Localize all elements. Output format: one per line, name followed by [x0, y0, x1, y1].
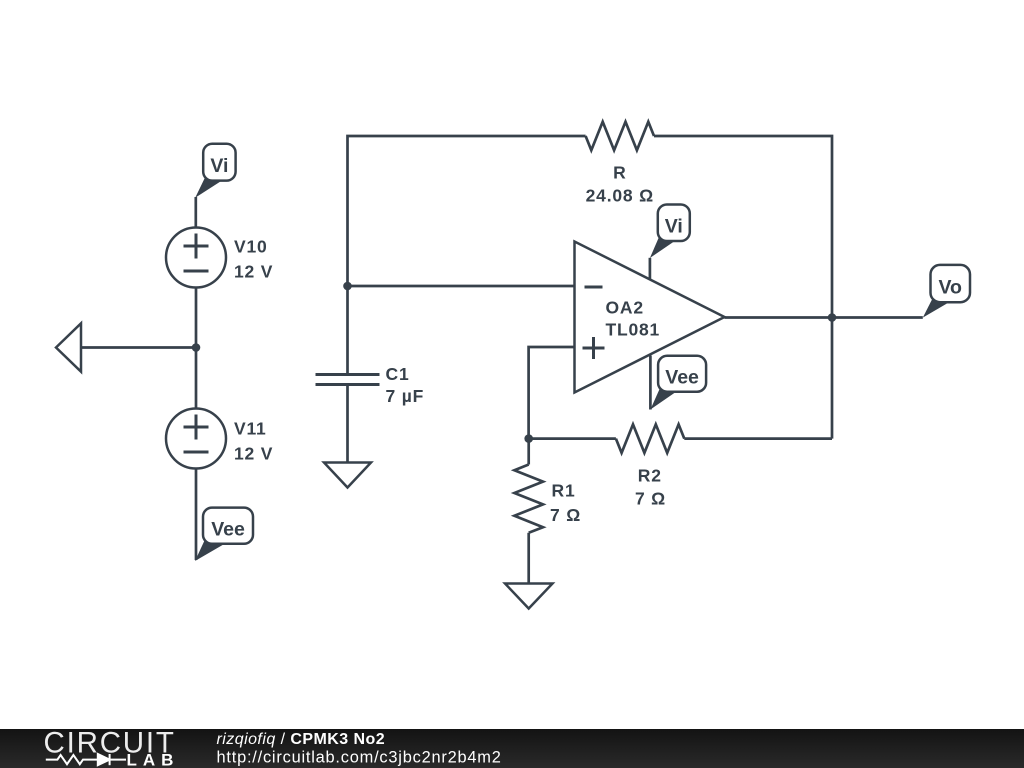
- svg-text:Vo: Vo: [939, 276, 963, 298]
- svg-text:TL081: TL081: [606, 320, 661, 340]
- wire Vee stub from op-amp bottom: [649, 356, 652, 410]
- wire R1 top lead: [527, 439, 530, 465]
- label R2 value: [635, 466, 666, 509]
- svg-text:Vi: Vi: [665, 216, 683, 238]
- node dot (inverting input / C1): [343, 282, 352, 291]
- net flag Vo (output): [923, 265, 970, 318]
- wire node to C1: [346, 286, 349, 374]
- net flag Vee (op-amp V-): [650, 356, 706, 410]
- resistor R: [586, 122, 654, 151]
- ground under C1: [324, 463, 371, 488]
- svg-text:R1: R1: [552, 481, 576, 501]
- resistor R1: [514, 465, 543, 533]
- wire op-amp output to Vo: [725, 316, 923, 319]
- svg-text:7 Ω: 7 Ω: [550, 505, 581, 525]
- wire V10 to V11: [195, 288, 198, 410]
- voltage source V10: [166, 228, 226, 288]
- label R1 value: [550, 481, 581, 526]
- label OA2: [606, 298, 661, 340]
- resistor R2: [616, 424, 684, 453]
- svg-text:Vee: Vee: [665, 367, 699, 389]
- wire node to left ground: [81, 346, 196, 349]
- wire top left segment: [348, 136, 586, 286]
- net flag Vee (left): [195, 508, 253, 561]
- op-amp OA2: [575, 242, 725, 393]
- wire inverting input: [348, 285, 575, 288]
- svg-text:http://circuitlab.com/c3jbc2nr: http://circuitlab.com/c3jbc2nr2b4m2: [217, 748, 502, 766]
- label V11 value: [234, 419, 273, 464]
- wire R1 bottom lead: [527, 533, 530, 584]
- wire R2 left lead: [529, 437, 616, 440]
- label V10 value: [234, 237, 273, 282]
- node dot (V sources / ground): [192, 343, 201, 352]
- wire non-inverting input: [529, 347, 575, 439]
- ground left: [56, 323, 81, 371]
- ground under R1: [505, 584, 553, 609]
- node dot (R1 / R2): [524, 434, 533, 443]
- svg-text:7 µF: 7 µF: [386, 386, 425, 406]
- svg-text:V10: V10: [234, 237, 268, 257]
- net flag Vi (left): [195, 144, 235, 198]
- CircuitLab logo schematic squiggle: [46, 754, 126, 765]
- svg-text:C1: C1: [386, 364, 410, 384]
- wire Vi stub to op-amp top: [649, 258, 652, 280]
- svg-text:V11: V11: [234, 419, 267, 439]
- net flag Vi (op-amp V+): [650, 205, 690, 259]
- label C1 value: [386, 364, 425, 406]
- node dot (output): [828, 313, 837, 322]
- svg-text:Vee: Vee: [211, 519, 245, 541]
- wire R2 right lead: [684, 437, 832, 440]
- svg-text:Vi: Vi: [210, 155, 228, 177]
- wire C1 to ground: [346, 385, 349, 463]
- svg-text:24.08 Ω: 24.08 Ω: [586, 186, 654, 206]
- svg-text:OA2: OA2: [606, 298, 644, 318]
- capacitor C1: [316, 375, 380, 385]
- wire V11 to Vee flag: [195, 469, 198, 561]
- svg-text:12 V: 12 V: [234, 262, 273, 282]
- label R value: [586, 163, 654, 206]
- wire top right segment: [654, 136, 832, 439]
- svg-text:12 V: 12 V: [234, 444, 273, 464]
- svg-text:LAB: LAB: [127, 751, 180, 768]
- wire Vi stub to V10: [194, 197, 197, 229]
- svg-text:rizqiofiq / CPMK3 No2: rizqiofiq / CPMK3 No2: [217, 731, 386, 748]
- svg-text:R2: R2: [638, 466, 662, 486]
- svg-text:7 Ω: 7 Ω: [635, 489, 666, 509]
- voltage source V11: [166, 409, 226, 469]
- svg-text:R: R: [613, 163, 626, 183]
